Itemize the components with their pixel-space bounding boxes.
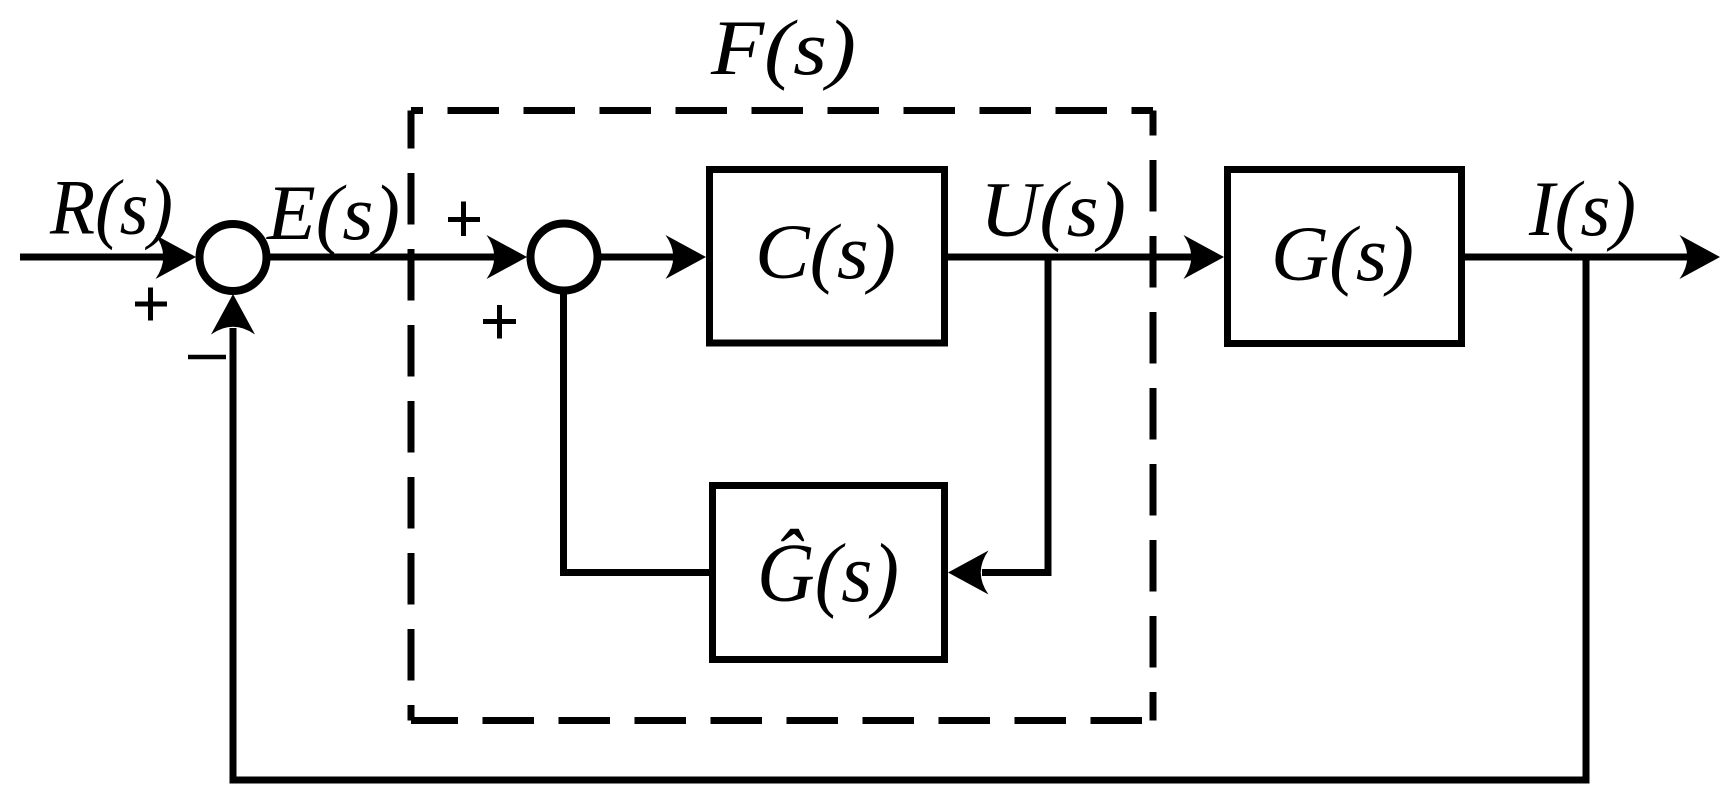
wire from S2 to block C(s) [597, 235, 706, 279]
wire branch node U down to inner feedback [1045, 257, 1052, 576]
svg-text:U(s): U(s) [980, 166, 1126, 253]
block G(s) [1228, 170, 1462, 344]
wire into Ghat block (leftward arrow) [948, 551, 1052, 595]
block Ghat(s) [713, 486, 945, 660]
wire R(s) input [20, 235, 196, 279]
plus sign upper at summing junction S2 [448, 202, 480, 237]
svg-text:C(s): C(s) [755, 208, 896, 295]
svg-text:I(s): I(s) [1528, 165, 1636, 252]
svg-text:E(s): E(s) [266, 169, 400, 256]
svg-text:R(s): R(s) [49, 164, 173, 251]
wire E(s) from S1 to S2 [270, 235, 527, 279]
minus sign at summing junction S1 [188, 355, 226, 360]
plus sign lower at summing junction S2 [483, 305, 516, 339]
svg-text:Ĝ(s): Ĝ(s) [757, 527, 899, 620]
wire from C(s) to block G(s) [948, 235, 1224, 279]
wire I(s) output [1465, 235, 1720, 279]
summing junction S2 [531, 224, 598, 291]
block C(s) [710, 170, 945, 344]
wire from S2 bottom down and right to Ghat input [564, 291, 710, 573]
wire outer feedback loop from I(s) branch down, left, and up to S1 [211, 257, 1586, 780]
dashed box F(s) [411, 111, 1153, 721]
summing junction S1 [200, 224, 267, 291]
svg-text:F(s): F(s) [710, 4, 856, 91]
svg-text:G(s): G(s) [1271, 210, 1414, 297]
plus sign at summing junction S1 [135, 288, 167, 321]
